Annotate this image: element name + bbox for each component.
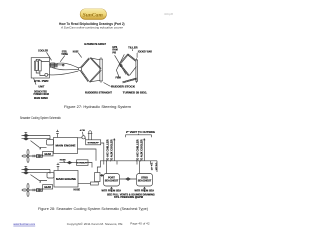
strainer inlet valve <box>100 175 103 177</box>
unit 2 hose coupling box <box>91 182 99 185</box>
rudder stock leader <box>104 83 111 87</box>
svg-text:WTR FROM SEA: WTR FROM SEA <box>102 189 122 192</box>
svg-text:TO A/C CHILLER: TO A/C CHILLER <box>106 139 109 161</box>
pump block <box>39 60 42 71</box>
turned tiller upper-left edge <box>120 54 129 64</box>
unit piping <box>36 59 49 75</box>
straight tiller lower edge <box>89 70 101 83</box>
svg-text:A SunCam online continuing edu: A SunCam online continuing education cou… <box>60 25 123 29</box>
jockey bar (turned) <box>135 58 138 83</box>
steering cylinder ribs <box>51 62 57 68</box>
crossover valve <box>120 178 137 181</box>
svg-text:SunCam: SunCam <box>83 12 104 18</box>
unit 2 inlet line <box>59 161 76 163</box>
svg-text:RAM: RAM <box>112 49 117 52</box>
stbd seachest <box>137 174 153 187</box>
jockey bar (straight) <box>99 57 103 82</box>
unit 1 main engine <box>54 138 78 154</box>
svg-text:1/2” P.O.: 1/2” P.O. <box>156 162 158 170</box>
svg-text:2" VENT TO OUTSIDE: 2" VENT TO OUTSIDE <box>126 130 155 134</box>
svg-text:SEACHEST: SEACHEST <box>138 180 152 183</box>
unit 1 raw water pump <box>78 129 86 140</box>
unit 2 wtr muff box <box>77 160 89 166</box>
cylinder rod line <box>49 64 64 66</box>
unit 1 engine attachment box <box>47 140 54 145</box>
chiller pipes pair 2 <box>144 139 146 161</box>
unit 2 inlet valve <box>67 161 72 163</box>
svg-text:4 PSI: 4 PSI <box>80 129 86 132</box>
turned pivot <box>120 64 122 66</box>
svg-text:MAIN SWBD: MAIN SWBD <box>34 96 48 100</box>
turned tiller lower-right edge <box>130 67 137 76</box>
svg-text:HYD. PWR: HYD. PWR <box>34 79 49 83</box>
svg-text:TO A/C CHILLER: TO A/C CHILLER <box>136 139 139 161</box>
svg-text:GEAR: GEAR <box>44 153 51 156</box>
hose run (upper) <box>57 63 79 68</box>
svg-text:WTRMUFF: WTRMUFF <box>77 163 89 165</box>
hose run (lower) <box>52 68 78 70</box>
vent bracket <box>126 134 152 138</box>
svg-text:TILLER: TILLER <box>128 46 138 49</box>
unit 2 hose run <box>78 182 97 184</box>
seachest header line <box>100 161 157 174</box>
turned ram upper-right (hatched) <box>127 54 136 61</box>
unit 2 vent valves <box>22 166 51 182</box>
svg-text:Page 40 of 42: Page 40 of 42 <box>130 222 150 226</box>
pump motor circle <box>45 73 48 76</box>
svg-text:4iCp8: 4iCp8 <box>164 12 174 16</box>
straight link top <box>90 58 100 60</box>
svg-text:FISH: FISH <box>116 78 122 80</box>
unit 2 engine top stub <box>57 163 60 171</box>
unit 2 shaft couplings <box>37 189 40 192</box>
svg-text:TO AUX COOLER: TO AUX COOLER <box>140 139 143 161</box>
unit 1 propeller <box>22 150 43 163</box>
unit 1 gear box <box>43 152 54 157</box>
svg-text:GEAR: GEAR <box>44 186 51 189</box>
chiller pipes pair 1 <box>114 139 116 161</box>
svg-text:RUDDERS STRAIGHT: RUDDERS STRAIGHT <box>85 92 112 95</box>
svg-text:Copyright© 2011 Kevin M. Steve: Copyright© 2011 Kevin M. Stevens, PE <box>67 222 123 226</box>
pump output line <box>48 74 50 76</box>
straight tiller upper edge <box>90 58 101 70</box>
steel tubing leader <box>60 56 65 62</box>
hose leader <box>78 53 81 58</box>
svg-text:Figure 28: Seawater Cooling Sy: Figure 28: Seawater Cooling System Schem… <box>38 207 148 211</box>
hydraulic power unit box <box>31 58 49 78</box>
unit 1 engine top stub <box>56 130 59 138</box>
straight ram upper (hatched) <box>81 58 90 68</box>
unit 1 discharge piping <box>78 143 104 161</box>
svg-text:MAIN ENGINE: MAIN ENGINE <box>56 177 76 181</box>
svg-text:UNIT: UNIT <box>38 85 44 89</box>
turned cross ram A <box>115 55 126 74</box>
svg-text:WTR FROM SEA: WTR FROM SEA <box>135 189 155 192</box>
unit 1 wtr muff box <box>86 140 101 145</box>
rudder stock arm (hatched) <box>122 78 137 83</box>
unit 2 gear box <box>43 185 53 190</box>
SunCam logo <box>80 9 107 20</box>
svg-text:HOSE: HOSE <box>74 190 81 192</box>
svg-text:TUBING: TUBING <box>61 53 68 56</box>
straight ram lower (hatched) <box>80 70 89 82</box>
unit 2 strainer <box>95 173 100 182</box>
svg-text:HOSE: HOSE <box>73 51 79 54</box>
return hose <box>49 71 78 75</box>
reservoir <box>34 61 38 71</box>
svg-text:SEACHEST: SEACHEST <box>105 180 119 183</box>
svg-text:1/2” P.O.: 1/2” P.O. <box>152 162 154 170</box>
unit 1 shaft couplings <box>37 155 40 158</box>
unit 2 propeller <box>22 184 43 197</box>
svg-text:TURNED 35 DEG.: TURNED 35 DEG. <box>123 92 148 95</box>
svg-text:RUDDER STOCK: RUDDER STOCK <box>111 85 135 88</box>
seachest intake arrows <box>111 187 146 192</box>
svg-text:Figure 27: Hydraulic Steering: Figure 27: Hydraulic Steering System <box>64 105 131 109</box>
turned cross ram B <box>116 54 124 78</box>
svg-text:SYS. PRESSURE @GPM: SYS. PRESSURE @GPM <box>114 196 143 199</box>
svg-text:www.SunCam.com: www.SunCam.com <box>13 222 35 226</box>
svg-text:WTRMUFF: WTRMUFF <box>88 142 100 144</box>
strainer feed from manifold <box>97 161 100 173</box>
svg-text:JOCKEY BAR: JOCKEY BAR <box>138 51 153 54</box>
tiller leader <box>131 49 133 51</box>
jockey bar leader <box>136 53 138 58</box>
port seachest <box>104 174 120 187</box>
svg-text:ALTERNATE ARRGT: ALTERNATE ARRGT <box>84 42 106 46</box>
unit 2 muff outlet <box>88 163 92 168</box>
svg-text:HPS: HPS <box>112 47 117 49</box>
svg-text:MAIN ENGINE: MAIN ENGINE <box>56 144 76 148</box>
turned ram lower-left (hatched) <box>119 64 129 76</box>
svg-text:Seawater Cooling System Schema: Seawater Cooling System Schematic <box>20 116 61 120</box>
svg-text:COOLER: COOLER <box>38 48 48 52</box>
unit 2 engine attachment box <box>47 173 54 178</box>
unit 2 main engine <box>54 171 78 188</box>
svg-text:HOSE: HOSE <box>60 160 67 162</box>
straight assembly pivot <box>78 67 81 70</box>
power feed leader <box>34 78 36 84</box>
cooler leader line <box>47 52 52 60</box>
unit 1 vent valves <box>22 132 51 149</box>
svg-text:TO AUX COOLER: TO AUX COOLER <box>110 139 113 161</box>
svg-text:P/S: P/S <box>112 53 116 55</box>
rod end fitting <box>62 64 64 66</box>
unit 1 vent stack <box>88 131 93 140</box>
straight link bottom <box>89 80 100 82</box>
